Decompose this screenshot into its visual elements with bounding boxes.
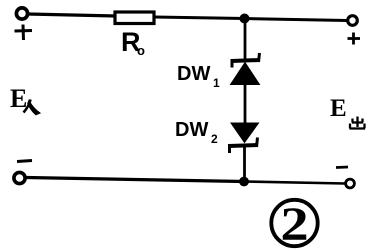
zener diode DW1 bbox=[231, 53, 261, 85]
minus sign bottom-right bbox=[336, 166, 348, 169]
terminal T3 (bottom-left) bbox=[14, 172, 25, 183]
svg-text:2: 2 bbox=[280, 198, 308, 251]
zener diode DW2 bbox=[229, 123, 259, 153]
wire resistor to top junction bbox=[154, 17, 245, 19]
svg-text:o: o bbox=[137, 43, 145, 58]
plus sign at input bbox=[15, 25, 33, 41]
glyph 入 (input subscript) bbox=[24, 100, 31, 113]
node top junction bbox=[240, 14, 250, 24]
svg-text:E: E bbox=[330, 95, 347, 122]
wire T1 to resistor bbox=[28, 14, 117, 16]
figure number badge circled 2 bbox=[271, 200, 317, 246]
wire bottom-left terminal to bottom junction bbox=[26, 178, 244, 182]
wire DW2 to bottom junction bbox=[243, 146, 246, 182]
terminal T1 (top-left input) bbox=[16, 8, 27, 19]
terminal T4 (bottom-right) bbox=[346, 179, 355, 188]
svg-text:2: 2 bbox=[211, 132, 218, 146]
wire DW1 to DW2 bbox=[244, 84, 247, 123]
wire bottom junction to T4 bbox=[244, 182, 345, 184]
resistor R0 bbox=[115, 12, 154, 24]
wire top junction to T2 bbox=[244, 19, 347, 21]
terminal T2 (top-right output) bbox=[348, 16, 358, 26]
glyph 出 (output subscript) bbox=[350, 117, 366, 129]
svg-text:DW: DW bbox=[177, 63, 210, 85]
plus sign at output bbox=[348, 33, 361, 45]
minus sign bottom-left bbox=[17, 161, 32, 162]
node bottom junction bbox=[239, 177, 249, 187]
svg-text:E: E bbox=[10, 84, 27, 113]
wire top junction down to DW1 bbox=[244, 21, 247, 60]
svg-text:1: 1 bbox=[213, 76, 220, 90]
svg-text:DW: DW bbox=[175, 119, 208, 141]
